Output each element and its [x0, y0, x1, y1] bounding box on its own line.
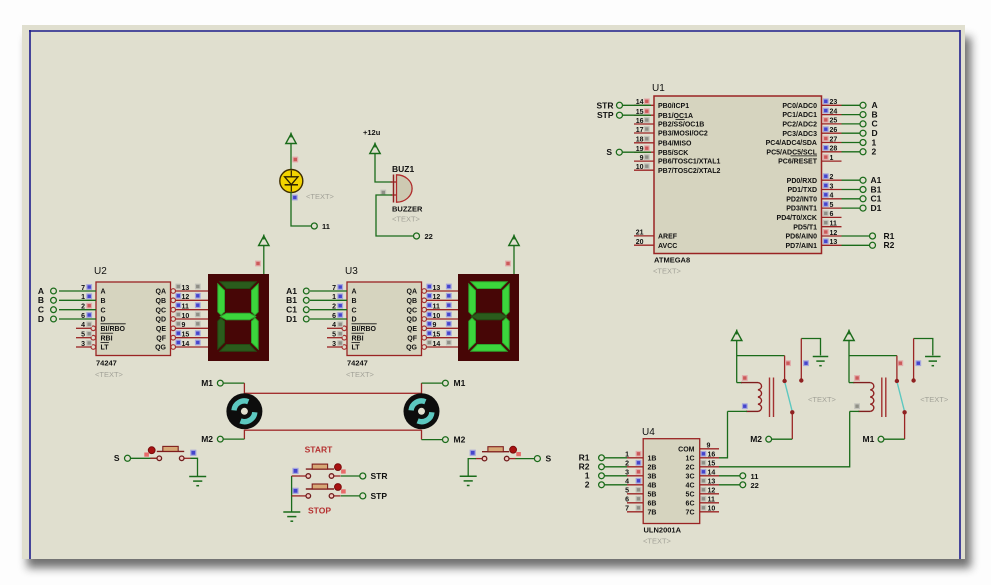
U1 pin 1 (PC6/RESET)	[822, 160, 842, 162]
relay NO contact M1	[902, 410, 906, 414]
U1 pin 15 (PB1/OC1A)	[634, 114, 654, 116]
svg-text:STP: STP	[597, 110, 614, 120]
svg-text:AREF: AREF	[658, 234, 678, 241]
svg-text:11: 11	[708, 497, 716, 504]
svg-text:PB6/TOSC1/XTAL1: PB6/TOSC1/XTAL1	[658, 159, 720, 166]
wire M2 right to motor2	[422, 439, 443, 441]
U3 pin 15 (QF)	[422, 335, 427, 340]
terminal A1 (from U1)	[842, 179, 861, 181]
svg-text:22: 22	[425, 232, 433, 241]
U3 pin 9 (QE)	[422, 326, 427, 331]
terminal D (from U1)	[842, 132, 861, 134]
U1 pin 10 (PB7/TOSC2/XTAL2)	[634, 169, 654, 171]
terminal M1 right	[443, 380, 449, 386]
terminal R1 (from U1)	[842, 235, 870, 237]
U3 pin 12 (QB)	[422, 298, 427, 303]
7-segment display DISP2 showing 0	[458, 274, 519, 361]
state square coil top M1	[855, 376, 860, 381]
svg-text:STP: STP	[371, 491, 388, 501]
state square red display2	[506, 261, 511, 266]
svg-text:PC2/ADC2: PC2/ADC2	[782, 122, 817, 129]
relay NC contact M1	[914, 339, 933, 356]
U4 pin 12 (5C)	[700, 493, 719, 495]
svg-text:28: 28	[830, 146, 838, 153]
U4 pin 13 (4C)	[700, 484, 719, 486]
U4 pin 9 (COM)	[700, 448, 719, 450]
power symbol above display DISP1	[259, 236, 269, 246]
U2 pin 12 (QB)	[171, 298, 176, 303]
relay movable contact (cyan) M2	[785, 383, 792, 411]
relay coil M1	[849, 382, 854, 384]
ground relay M2	[813, 356, 829, 358]
U1 pin 5 (PD3/INT1)	[822, 207, 842, 209]
U3 pin 10 (QD)	[422, 317, 427, 322]
wire M2 to motor1	[223, 438, 244, 440]
svg-text:STOP: STOP	[308, 506, 331, 516]
U2 pin 3 (LT)	[76, 346, 91, 348]
state square gray buzzer	[381, 190, 386, 195]
terminal R2 (from U1)	[842, 244, 870, 246]
wire buzzer pin 2 to terminal 22	[376, 195, 413, 236]
terminal B (from U1)	[842, 114, 861, 116]
U2 pin 13 (QA)	[171, 289, 176, 294]
svg-text:COM: COM	[678, 446, 695, 453]
wire relay M2 power	[736, 340, 738, 383]
U4 pin 6 (6B)	[627, 502, 643, 504]
svg-text:9: 9	[433, 322, 437, 329]
terminal node 11	[311, 223, 317, 229]
wire U4 1C to relay RL1 coil	[719, 411, 728, 457]
svg-text:2: 2	[872, 147, 877, 157]
U4 pin 10 (7C)	[700, 511, 719, 513]
svg-text:S: S	[546, 454, 552, 464]
relay coil M2	[737, 382, 742, 384]
svg-text:STR: STR	[597, 100, 614, 110]
svg-text:9: 9	[640, 155, 644, 162]
wire display1 power	[263, 245, 265, 275]
U4 pin 16 (1C)	[700, 457, 719, 459]
svg-text:ULN2001A: ULN2001A	[644, 526, 682, 535]
U1 pin 13 (PD7/AIN1)	[822, 244, 842, 246]
motor 1 (left conveyor roller)	[226, 393, 262, 429]
wire LED anode	[290, 143, 292, 171]
wire U4 4C to terminal 22	[719, 484, 740, 486]
svg-text:9: 9	[182, 322, 186, 329]
svg-text:<TEXT>: <TEXT>	[95, 370, 124, 379]
svg-text:PB2/SS/OC1B: PB2/SS/OC1B	[658, 122, 704, 129]
svg-text:QC: QC	[156, 307, 167, 314]
U1 pin 24 (PC1/ADC1)	[822, 114, 842, 116]
U2 pin 7 (A)	[59, 290, 96, 292]
svg-text:RBI: RBI	[352, 335, 364, 342]
svg-text:2: 2	[81, 304, 85, 311]
relay movable contact (cyan) M1	[897, 383, 904, 411]
wire buzzer pin 1	[375, 153, 392, 182]
power symbol +12v buzzer	[370, 144, 380, 154]
svg-text:BUZZER: BUZZER	[392, 205, 423, 214]
svg-text:27: 27	[830, 136, 838, 143]
svg-text:U2: U2	[94, 266, 107, 277]
svg-text:PC4/ADC4/SDA: PC4/ADC4/SDA	[766, 140, 817, 147]
power symbol above display DISP2	[509, 236, 519, 246]
ground relay M1	[925, 356, 941, 358]
ground below START/STOP	[283, 511, 300, 513]
svg-text:M1: M1	[201, 378, 213, 388]
U3 pin 3 (LT)	[327, 346, 342, 348]
state square blue S left	[191, 450, 196, 455]
motor 2 (right conveyor roller)	[404, 393, 440, 429]
svg-text:QF: QF	[156, 335, 166, 342]
U1 pin 28 (PC5/ADC5/SCL)	[822, 151, 842, 153]
svg-text:22: 22	[751, 481, 759, 490]
svg-text:U3: U3	[345, 266, 358, 277]
svg-text:5: 5	[830, 202, 834, 209]
power symbol above LED D1	[286, 134, 296, 144]
svg-text:1B: 1B	[648, 455, 657, 462]
svg-text:74247: 74247	[347, 359, 368, 368]
U3 pin 7 (A)	[310, 290, 347, 292]
svg-text:10: 10	[636, 164, 644, 171]
U1 pin 14 (PB0/ICP1)	[634, 104, 654, 106]
state square blue START	[293, 468, 298, 473]
svg-text:2C: 2C	[686, 464, 695, 471]
svg-text:PD2/INT0: PD2/INT0	[786, 196, 817, 203]
svg-text:<TEXT>: <TEXT>	[643, 537, 672, 546]
svg-text:18: 18	[636, 137, 644, 144]
U1 pin 19 (PB5/SCK)	[634, 151, 654, 153]
svg-text:M1: M1	[862, 434, 874, 444]
U4 pin 14 (3C)	[700, 475, 719, 477]
svg-text:ATMEGA8: ATMEGA8	[654, 256, 690, 265]
state square blue S right	[470, 450, 475, 455]
relay core M2	[769, 378, 771, 418]
svg-text:PD5/T1: PD5/T1	[793, 224, 817, 231]
svg-text:M1: M1	[454, 378, 466, 388]
U1 pin 3 (PD1/TXD)	[822, 189, 842, 191]
terminal S right	[534, 456, 540, 462]
overline SS on U1 PB2 pin name	[676, 119, 685, 121]
decoder U3 74247 body	[347, 282, 422, 356]
svg-text:C: C	[101, 307, 106, 314]
svg-text:PB0/ICP1: PB0/ICP1	[658, 103, 689, 110]
U1 pin 27 (PC4/ADC4/SDA)	[822, 142, 842, 144]
svg-text:QE: QE	[156, 326, 166, 333]
svg-text:11: 11	[830, 221, 838, 228]
wire M1 to motor1	[223, 382, 244, 384]
svg-text:16: 16	[708, 452, 716, 459]
svg-text:11: 11	[322, 222, 330, 231]
svg-text:PC1/ADC1: PC1/ADC1	[782, 112, 817, 119]
U3 pin 4 (BI/RBO)	[327, 327, 342, 329]
svg-text:M2: M2	[201, 434, 213, 444]
svg-text:15: 15	[433, 332, 441, 339]
svg-text:3: 3	[830, 183, 834, 190]
U3 pin 13 (QA)	[422, 289, 427, 294]
wire display2 power	[513, 245, 515, 275]
U1 pin 12 (PD6/AIN0)	[822, 235, 842, 237]
wire button to terminal S right	[516, 458, 535, 460]
svg-text:7B: 7B	[648, 509, 657, 516]
svg-text:QG: QG	[155, 345, 166, 352]
U1 pin 23 (PC0/ADC0)	[822, 104, 842, 106]
svg-text:1: 1	[332, 294, 336, 301]
terminal 2 (from U1)	[842, 151, 861, 153]
svg-text:BUZ1: BUZ1	[392, 164, 414, 174]
terminal node 22 (U4)	[740, 482, 746, 488]
svg-text:S: S	[606, 147, 612, 157]
wire S to button	[131, 457, 157, 459]
7-segment display DISP1 showing 4	[208, 274, 269, 361]
svg-text:+12u: +12u	[363, 128, 381, 137]
U1 pin 9 (PB6/TOSC1/XTAL1)	[634, 160, 654, 162]
svg-text:17: 17	[636, 127, 644, 134]
U1 pin 25 (PC2/ADC2)	[822, 123, 842, 125]
svg-text:3: 3	[332, 341, 336, 348]
svg-text:7: 7	[625, 506, 629, 513]
terminal R1 (U4 input)	[605, 457, 627, 459]
svg-text:PD0/RXD: PD0/RXD	[787, 178, 817, 185]
relay common pole M2	[784, 356, 786, 380]
svg-text:D: D	[101, 317, 106, 324]
svg-text:13: 13	[830, 239, 838, 246]
svg-text:PB1/OC1A: PB1/OC1A	[658, 113, 693, 120]
terminal 1 (U4 input)	[605, 475, 627, 477]
svg-text:PD6/AIN0: PD6/AIN0	[785, 234, 817, 241]
overline RESET on U1 PC6 pin name	[791, 155, 818, 157]
U4 pin 2 (2B)	[627, 466, 643, 468]
svg-text:LT: LT	[101, 345, 110, 352]
svg-text:4: 4	[332, 322, 336, 329]
svg-text:A: A	[101, 289, 106, 296]
svg-text:START: START	[305, 445, 334, 455]
U3 pin 11 (QC)	[422, 307, 427, 312]
terminal M2 right	[443, 437, 449, 443]
svg-text:1: 1	[830, 155, 834, 162]
U4 pin 5 (5B)	[627, 493, 643, 495]
svg-text:12: 12	[182, 294, 190, 301]
wire U4 3C to terminal 11	[719, 475, 740, 477]
svg-text:LT: LT	[352, 345, 361, 352]
U2 pin 10 (QD)	[171, 317, 176, 322]
state square blue STOP	[293, 488, 298, 493]
svg-text:21: 21	[636, 230, 644, 237]
wire LED cathode to terminal 11	[291, 192, 311, 226]
belt (conveyor) wires	[243, 383, 245, 393]
svg-text:6C: 6C	[686, 500, 695, 507]
U4 pin 15 (2C)	[700, 466, 719, 468]
state square coil top M2	[743, 376, 748, 381]
svg-text:3B: 3B	[648, 473, 657, 480]
wire U4 2C to relay RL2 coil	[719, 411, 850, 466]
svg-text:2: 2	[585, 480, 590, 490]
svg-text:5: 5	[625, 488, 629, 495]
svg-text:PC6/RESET: PC6/RESET	[778, 159, 818, 166]
svg-text:2: 2	[830, 174, 834, 181]
terminal C (from U1)	[842, 123, 861, 125]
svg-text:24: 24	[830, 108, 838, 115]
U2 pin 9 (QE)	[171, 326, 176, 331]
svg-text:11: 11	[182, 304, 190, 311]
U4 pin 11 (6C)	[700, 502, 719, 504]
microcontroller U1 ATMEGA8 body	[654, 96, 822, 254]
svg-text:PD4/T0/XCK: PD4/T0/XCK	[777, 215, 817, 222]
svg-text:10: 10	[708, 506, 716, 513]
pushbutton S right (mirrored)	[482, 451, 509, 453]
svg-text:14: 14	[708, 470, 716, 477]
U1 pin 2 (PD0/RXD)	[822, 179, 842, 181]
svg-text:7C: 7C	[686, 509, 695, 516]
svg-text:<TEXT>: <TEXT>	[306, 192, 335, 201]
svg-text:13: 13	[708, 479, 716, 486]
svg-text:QC: QC	[407, 307, 418, 314]
svg-text:1: 1	[81, 294, 85, 301]
svg-text:23: 23	[830, 99, 838, 106]
svg-text:74247: 74247	[96, 359, 117, 368]
U1 pin 16 (PB2/SS/OC1B)	[634, 123, 654, 125]
terminal A (from U1)	[842, 104, 861, 106]
relay NO contact M2	[790, 410, 794, 414]
U4 pin 3 (3B)	[627, 475, 643, 477]
svg-text:BI/RBO: BI/RBO	[352, 326, 377, 333]
svg-text:16: 16	[636, 118, 644, 125]
U2 pin 6 (D)	[59, 318, 96, 320]
svg-text:PC0/ADC0: PC0/ADC0	[782, 103, 817, 110]
svg-text:M2: M2	[454, 435, 466, 445]
terminal C1 (from U1)	[842, 198, 861, 200]
relay core M1	[881, 378, 883, 418]
U1 pin 18 (PB4/MISO)	[634, 142, 654, 144]
svg-text:12: 12	[708, 488, 716, 495]
U3 pin 2 (C)	[310, 309, 347, 311]
svg-text:<TEXT>: <TEXT>	[920, 395, 949, 404]
svg-text:13: 13	[182, 285, 190, 292]
sheet navy border frame	[29, 30, 960, 32]
svg-text:6B: 6B	[648, 500, 657, 507]
svg-text:6: 6	[332, 313, 336, 320]
svg-text:26: 26	[830, 127, 838, 134]
U2 pin 1 (B)	[59, 299, 96, 301]
ground below right S button	[460, 475, 477, 477]
svg-text:C: C	[352, 307, 357, 314]
relay common pole M1	[896, 356, 898, 380]
svg-text:PB4/MISO: PB4/MISO	[658, 140, 692, 147]
state square blue LED bottom	[293, 195, 298, 200]
U2 pin 5 (RBI)	[76, 337, 91, 339]
state square red display1	[256, 261, 261, 266]
svg-text:QD: QD	[407, 317, 418, 324]
U4 pin 4 (4B)	[627, 484, 643, 486]
svg-text:25: 25	[830, 118, 838, 125]
wire START to terminal STR	[341, 475, 360, 477]
svg-text:PD7/AIN1: PD7/AIN1	[785, 243, 817, 250]
terminal STP	[360, 493, 366, 499]
wire M1 right to motor2	[422, 382, 443, 384]
svg-text:RBI: RBI	[101, 335, 113, 342]
svg-text:A: A	[352, 289, 357, 296]
terminal node 22	[414, 233, 420, 239]
svg-text:9: 9	[707, 443, 711, 450]
U3 pin 1 (B)	[310, 299, 347, 301]
svg-text:B: B	[101, 298, 106, 305]
state square coil bottom M1	[855, 404, 860, 409]
state square coil bottom M2	[743, 404, 748, 409]
svg-text:13: 13	[433, 285, 441, 292]
svg-text:PD1/TXD: PD1/TXD	[787, 187, 817, 194]
svg-text:5: 5	[81, 332, 85, 339]
U2 pin 11 (QC)	[171, 307, 176, 312]
svg-text:<TEXT>: <TEXT>	[346, 370, 375, 379]
svg-text:PB7/TOSC2/XTAL2: PB7/TOSC2/XTAL2	[658, 168, 720, 175]
state square red LED top	[293, 157, 298, 162]
U2 pin 4 (BI/RBO)	[76, 327, 91, 329]
svg-text:2: 2	[332, 304, 336, 311]
svg-text:QA: QA	[407, 289, 418, 296]
svg-text:14: 14	[433, 341, 441, 348]
svg-text:4C: 4C	[686, 482, 695, 489]
svg-text:<TEXT>: <TEXT>	[392, 215, 421, 224]
svg-text:5: 5	[332, 332, 336, 339]
svg-text:PB5/SCK: PB5/SCK	[658, 150, 688, 157]
svg-text:20: 20	[636, 239, 644, 246]
U1 pin 6 (PD4/T0/XCK)	[822, 216, 842, 218]
svg-text:QA: QA	[156, 289, 167, 296]
U1 pin 21 (AREF)	[634, 235, 654, 237]
svg-text:10: 10	[433, 313, 441, 320]
svg-text:D1: D1	[871, 203, 882, 213]
wire relay M1 power	[848, 340, 850, 383]
wire button to ground right S	[468, 459, 476, 477]
svg-text:15: 15	[182, 332, 190, 339]
decoder U2 74247 body	[96, 282, 171, 356]
terminal B1 (from U1)	[842, 189, 861, 191]
svg-text:5C: 5C	[686, 491, 695, 498]
svg-text:QD: QD	[156, 317, 167, 324]
svg-text:PB3/MOSI/OC2: PB3/MOSI/OC2	[658, 131, 708, 138]
U3 pin 6 (D)	[310, 318, 347, 320]
svg-text:6: 6	[830, 211, 834, 218]
svg-text:3: 3	[81, 341, 85, 348]
svg-text:11: 11	[751, 472, 759, 481]
svg-text:D: D	[352, 317, 357, 324]
svg-text:M2: M2	[750, 434, 762, 444]
svg-text:2B: 2B	[648, 464, 657, 471]
svg-text:10: 10	[182, 313, 190, 320]
svg-text:R2: R2	[884, 240, 895, 250]
ground below left S button	[189, 476, 206, 478]
terminal R2 (U4 input)	[605, 466, 627, 468]
svg-text:<TEXT>: <TEXT>	[653, 267, 682, 276]
svg-text:U4: U4	[642, 427, 655, 438]
power symbol relay M1	[844, 331, 854, 341]
U1 pin 20 (AVCC)	[634, 244, 654, 246]
svg-text:4B: 4B	[648, 482, 657, 489]
svg-text:B: B	[352, 298, 357, 305]
terminal node 11 (U4)	[740, 473, 746, 479]
U3 pin 14 (QG)	[422, 345, 427, 350]
svg-text:U1: U1	[652, 83, 665, 94]
wire button to ground left S	[191, 458, 198, 476]
svg-text:1C: 1C	[686, 455, 695, 462]
U4 pin 1 (1B)	[627, 457, 643, 459]
svg-text:14: 14	[182, 341, 190, 348]
LED D1	[280, 170, 303, 193]
svg-text:PC5/ADC5/SCL: PC5/ADC5/SCL	[766, 149, 817, 156]
terminal 1 (from U1)	[842, 142, 861, 144]
svg-text:QF: QF	[407, 335, 417, 342]
U1 pin 11 (PD5/T1)	[822, 226, 842, 228]
svg-text:QE: QE	[407, 326, 417, 333]
svg-text:12: 12	[830, 230, 838, 237]
